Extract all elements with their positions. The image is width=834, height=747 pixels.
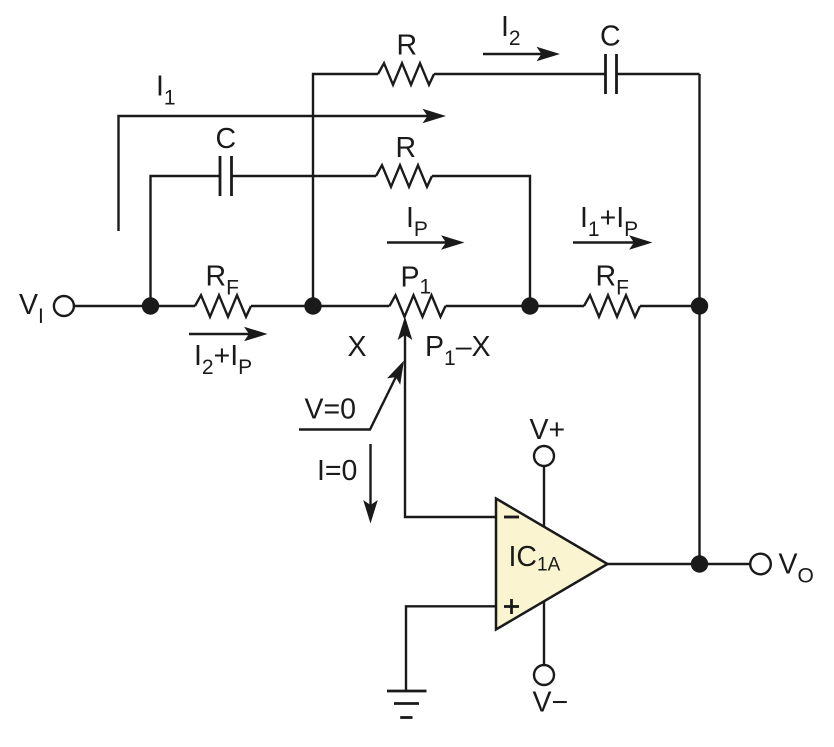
svg-text:R: R	[397, 30, 418, 62]
current arrow I1 (bent)	[119, 109, 447, 231]
wire V- supply	[543, 598, 545, 665]
wire second row left vertical from node A	[151, 176, 221, 306]
current arrow I1+IP	[573, 235, 653, 250]
node B	[304, 297, 321, 314]
op-amp IC1A	[496, 499, 608, 630]
node C	[521, 297, 538, 314]
node A	[142, 297, 159, 314]
resistor RF (left)	[195, 295, 251, 317]
capacitor C (second row)	[220, 156, 232, 196]
wire from C to right corner	[617, 73, 700, 75]
current arrow I2+IP	[189, 327, 268, 342]
terminal V+	[534, 446, 554, 466]
wire RF to P1	[251, 305, 390, 307]
annotation I=0 arrow	[363, 444, 378, 524]
current arrow IP	[387, 235, 465, 250]
annotation V=0 pointer	[299, 361, 404, 430]
svg-text:R: R	[396, 132, 417, 164]
wire output	[608, 563, 751, 565]
wire non-inverting input to ground	[406, 606, 496, 691]
svg-text:V−: V−	[533, 687, 569, 719]
terminal VI	[54, 296, 74, 316]
wire from R down to node C	[432, 176, 530, 306]
wire P1 to RF right	[446, 305, 585, 307]
node D	[691, 297, 708, 314]
node E (output)	[691, 555, 708, 572]
minus sign (inverting input)	[504, 516, 519, 519]
wire VI to RF	[74, 305, 195, 307]
ground	[387, 691, 427, 718]
svg-text:V+: V+	[530, 414, 566, 446]
wiper arrow of P1	[398, 317, 496, 518]
wire V+ supply	[543, 466, 545, 530]
wire right vertical	[698, 74, 700, 564]
wire top row left + vertical to node B	[313, 74, 378, 306]
terminal V-	[534, 665, 554, 685]
plus sign (non-inverting input)	[504, 599, 519, 614]
svg-text:X: X	[348, 331, 367, 363]
svg-text:V=0: V=0	[305, 394, 357, 426]
terminal VO	[750, 554, 771, 575]
capacitor C (top)	[606, 54, 617, 94]
resistor RF (right)	[584, 295, 640, 317]
wire from R to C (top)	[434, 73, 606, 75]
svg-text:I=0: I=0	[317, 455, 357, 487]
svg-text:C: C	[600, 21, 621, 53]
potentiometer P1	[390, 295, 446, 317]
current arrow I2	[483, 47, 560, 62]
resistor R (second row)	[376, 165, 432, 187]
resistor R (top)	[378, 63, 434, 85]
wire RF to node D	[640, 305, 700, 307]
wire from C to R (second row)	[232, 175, 377, 177]
svg-text:C: C	[216, 123, 237, 155]
